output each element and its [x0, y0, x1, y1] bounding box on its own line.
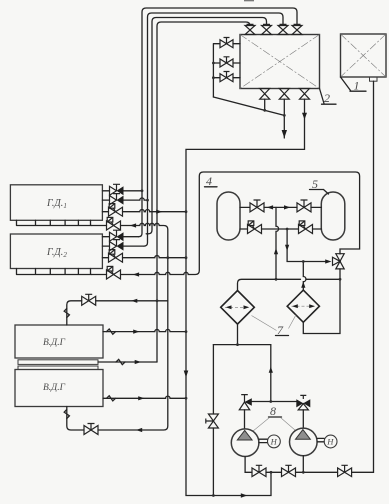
svg-text:4: 4: [206, 174, 212, 188]
svg-text:В.Д.Г: В.Д.Г: [43, 338, 66, 348]
svg-text:Н: Н: [270, 437, 278, 447]
svg-text:1: 1: [354, 79, 360, 93]
svg-text:2: 2: [324, 91, 330, 105]
svg-text:8: 8: [270, 404, 276, 418]
svg-text:Н: Н: [326, 437, 334, 447]
svg-text:В.Д.Г: В.Д.Г: [43, 383, 66, 393]
